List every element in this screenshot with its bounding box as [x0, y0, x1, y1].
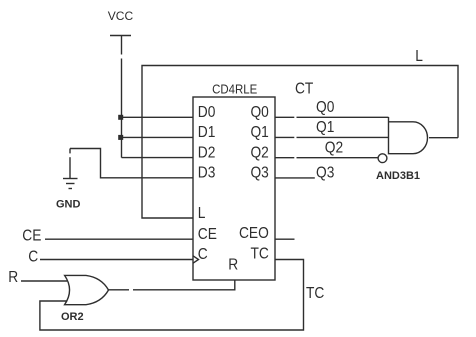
svg-text:Q1: Q1 — [250, 123, 268, 141]
svg-text:D1: D1 — [198, 123, 216, 141]
wire TC net — [40, 260, 304, 331]
and-gate AND3B1 — [389, 117, 428, 154]
svg-text:L: L — [415, 47, 423, 65]
IC U1 CD4RLE counter box — [193, 97, 275, 280]
svg-text:CD4RLE: CD4RLE — [212, 82, 257, 97]
wire D0 net — [122, 116, 194, 118]
wire L net (top rail feedback) — [142, 66, 458, 219]
svg-text:TC: TC — [306, 284, 325, 302]
wire Q2 net — [275, 157, 294, 159]
wire CEO stub — [275, 238, 295, 240]
inverter bubble on AND3B1 input — [378, 154, 387, 163]
svg-text:Q1: Q1 — [316, 118, 334, 136]
svg-text:D0: D0 — [198, 103, 216, 121]
svg-text:AND3B1: AND3B1 — [376, 170, 420, 182]
wire C net — [40, 259, 193, 261]
svg-text:CE: CE — [22, 227, 41, 245]
wire CE net — [45, 238, 193, 240]
svg-text:D2: D2 — [198, 143, 216, 161]
svg-text:C: C — [28, 248, 38, 266]
junction dot D0/VCC — [118, 115, 123, 120]
svg-text:OR2: OR2 — [61, 311, 84, 323]
svg-text:Q0: Q0 — [250, 103, 268, 121]
wire Q0 net — [275, 116, 294, 118]
or-gate OR2 — [65, 275, 109, 304]
svg-text:Q3: Q3 — [316, 164, 334, 182]
svg-text:Q2: Q2 — [325, 138, 343, 156]
svg-text:L: L — [198, 204, 206, 222]
wire D1 net — [122, 136, 194, 138]
wire D3 net from ground — [70, 149, 193, 178]
wire AND3B1 output — [429, 137, 458, 139]
junction dot D1/VCC — [118, 135, 123, 140]
svg-text:VCC: VCC — [108, 9, 134, 23]
svg-text:GND: GND — [56, 199, 81, 211]
svg-text:CT: CT — [295, 80, 313, 98]
wire Q1 net — [275, 136, 294, 138]
svg-text:Q2: Q2 — [250, 143, 268, 161]
svg-text:CE: CE — [198, 225, 217, 243]
svg-text:Q0: Q0 — [316, 98, 334, 116]
wire D2 net — [122, 157, 194, 159]
svg-text:Q3: Q3 — [250, 164, 268, 182]
wire R net to OR2 input — [21, 280, 67, 282]
clock triangle on pin C — [193, 256, 199, 263]
wire OR2 output to R pin — [109, 289, 130, 291]
svg-text:D3: D3 — [198, 164, 216, 182]
svg-text:TC: TC — [250, 245, 269, 263]
svg-text:R: R — [8, 268, 18, 286]
wire Q3 stub — [275, 177, 315, 179]
svg-text:CEO: CEO — [239, 224, 269, 242]
ground — [63, 149, 78, 189]
power symbol VCC — [110, 36, 131, 158]
svg-text:R: R — [228, 256, 238, 274]
svg-text:C: C — [198, 245, 208, 263]
